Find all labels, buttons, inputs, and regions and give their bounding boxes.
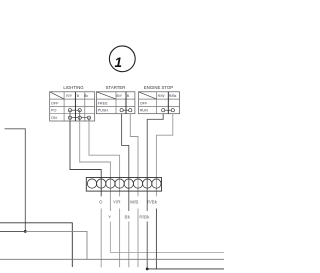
svg-text:R/W: R/W [158, 94, 166, 98]
wire starter col3 to pin6 [130, 114, 138, 197]
svg-text:OFF: OFF [140, 101, 148, 105]
wire Y segment and turn right [110, 222, 224, 253]
lighting switch table grid [50, 92, 95, 121]
svg-text:B: B [77, 94, 80, 98]
wire R/Bk segments to junction [146, 222, 148, 269]
connector pin 2 [97, 179, 106, 188]
wire engine stop col2 to pin7 [147, 114, 163, 211]
starter switch table grid [96, 92, 134, 114]
wire Bk segments [128, 222, 130, 268]
svg-text:Y: Y [108, 215, 111, 220]
junction dot left [24, 230, 27, 233]
connector pin 6 [133, 179, 142, 188]
callout circle 1 [109, 46, 135, 72]
connector pin 4 [115, 179, 124, 188]
lighting dark column border [74, 92, 76, 121]
svg-text:PUSH: PUSH [98, 109, 109, 113]
svg-text:R/Y: R/Y [66, 94, 73, 98]
connector pin 3 [106, 179, 115, 188]
connector housing [86, 178, 161, 192]
svg-text:LIGHTING: LIGHTING [63, 85, 84, 90]
starter dark column border [125, 92, 127, 114]
svg-text:FREE: FREE [98, 101, 109, 105]
svg-text:Bk: Bk [84, 94, 88, 98]
wire engine stop col3 to pin8 [156, 114, 172, 197]
harness wire lower with turn [0, 230, 25, 232]
engine stop RUN contact bridge [162, 109, 175, 112]
connector pin 1 [87, 179, 96, 188]
svg-text:STARTER: STARTER [106, 85, 126, 90]
connector pin 5 [124, 179, 133, 188]
lighting internal contact drops [70, 110, 89, 121]
bottom right dark wire [147, 268, 224, 270]
connector pin 7 [143, 179, 152, 188]
frame wire upper left [0, 223, 72, 267]
svg-text:R/Bk: R/Bk [139, 215, 150, 220]
svg-text:OFF: OFF [51, 101, 59, 105]
starter PUSH contact bridge [120, 109, 132, 112]
engine stop header diagonal [139, 92, 157, 99]
svg-text:RUN: RUN [140, 109, 148, 113]
wire W/B below label [137, 209, 139, 268]
engine stop dark column border [167, 92, 169, 114]
svg-text:Bk: Bk [125, 215, 131, 220]
starter header diagonal [96, 92, 116, 99]
svg-text:W/B: W/B [130, 200, 139, 205]
lighting ON contact bridge [68, 116, 90, 119]
svg-text:ON: ON [51, 116, 57, 120]
bottom main wire [0, 258, 224, 260]
engine stop switch table grid [139, 92, 180, 114]
left harness wire [5, 129, 26, 232]
lighting header diagonal [50, 92, 64, 99]
wire lighting col2 to pin2 [70, 121, 101, 196]
svg-text:Y/R: Y/R [113, 200, 121, 205]
svg-text:PO: PO [51, 109, 57, 113]
wire O below label [100, 209, 102, 268]
svg-text:B/Y: B/Y [117, 94, 123, 98]
wire lighting col4 to pin4 [89, 121, 120, 196]
svg-text:R/Bk: R/Bk [169, 94, 177, 98]
connector pin 8 [152, 179, 161, 188]
junction dot R/Bk [146, 268, 149, 271]
wire starter col2 to pin5 [122, 114, 129, 211]
wire lighting col3 to pin3 [80, 121, 111, 211]
svg-text:ENGINE STOP: ENGINE STOP [144, 85, 173, 90]
wire Y/R below label [119, 209, 121, 268]
svg-text:P/Bk: P/Bk [147, 200, 157, 205]
wire P/Bk below label turning right [155, 209, 157, 269]
svg-text:O: O [99, 200, 103, 205]
svg-text:B: B [127, 94, 130, 98]
lighting PO contact bridge [68, 109, 81, 112]
svg-text:1: 1 [114, 55, 122, 70]
